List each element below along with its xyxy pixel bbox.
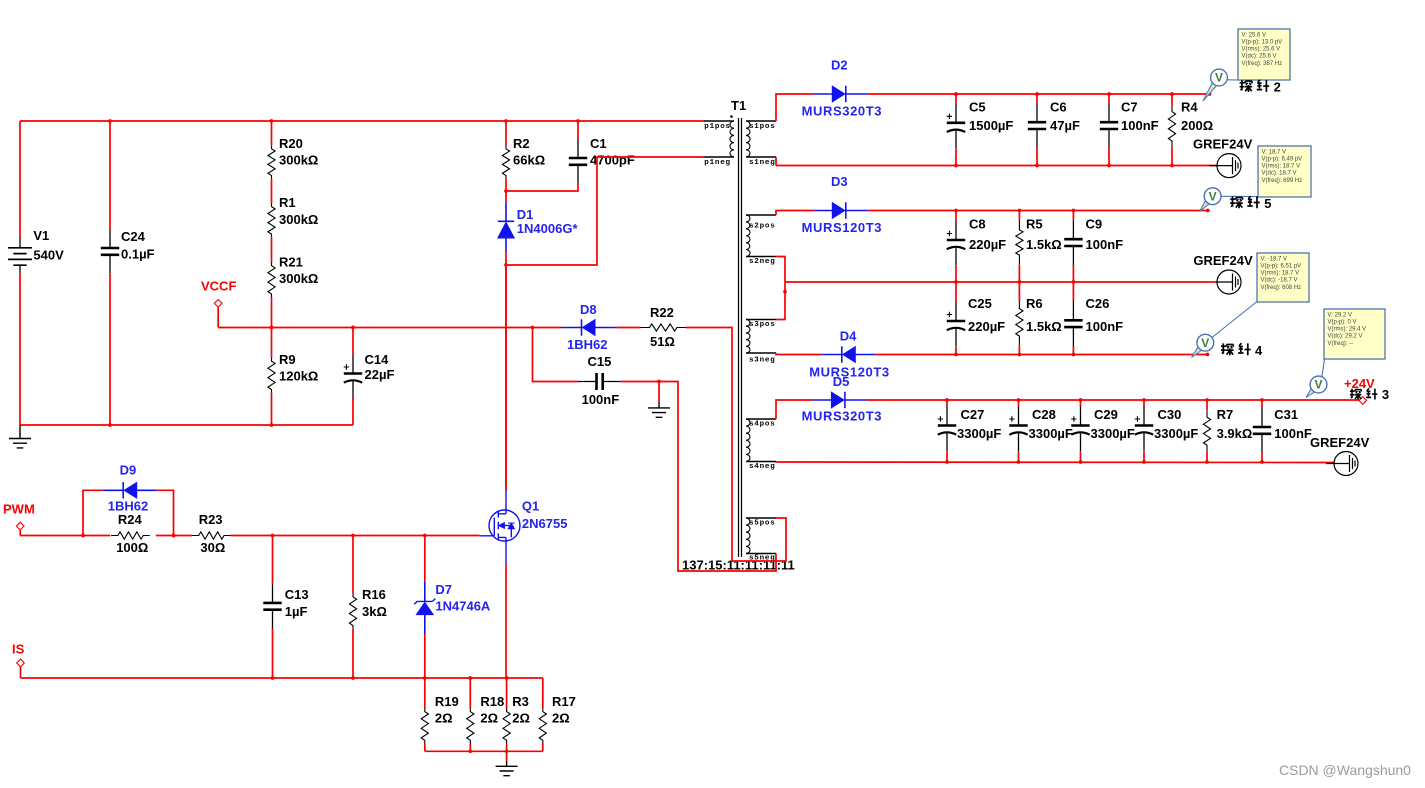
svg-text:V: V bbox=[1209, 189, 1217, 203]
svg-text:V(freq): 387 Hz: V(freq): 387 Hz bbox=[1242, 61, 1283, 67]
pin p1neg bbox=[703, 156, 734, 158]
node n divider top bbox=[270, 119, 274, 123]
resistor R22 bbox=[641, 324, 687, 331]
label C9 bbox=[1086, 217, 1124, 253]
svg-text:D5: D5 bbox=[833, 374, 850, 389]
svg-text:3kΩ: 3kΩ bbox=[362, 604, 387, 619]
probe leader probe4 bbox=[1212, 302, 1257, 338]
node row4 top 1144 bbox=[1142, 398, 1146, 402]
svg-text:V: 18.7 V: V: 18.7 V bbox=[1262, 149, 1286, 155]
label R5 bbox=[1026, 217, 1062, 253]
wire C5 bottom lead bbox=[955, 149, 957, 166]
svg-text:V(freq): 699 Hz: V(freq): 699 Hz bbox=[1262, 178, 1303, 184]
label C14 bbox=[365, 352, 395, 382]
wire C5 top lead bbox=[955, 94, 957, 104]
label R4 bbox=[1181, 100, 1213, 134]
wire C31 top lead bbox=[1261, 400, 1263, 408]
wire s1pos riser bbox=[776, 94, 813, 121]
wire row3 bottom rail bbox=[875, 354, 1207, 356]
wire C27 top lead bbox=[946, 400, 948, 407]
resistor R16 bbox=[349, 593, 356, 629]
label D8 bbox=[580, 302, 597, 317]
net connector +24V bbox=[1359, 397, 1367, 405]
node row1 bot 1172 bbox=[1170, 164, 1174, 168]
probe leader probe2 bbox=[1227, 79, 1239, 81]
capacitor C25 bbox=[947, 302, 966, 347]
wire R7 bottom lead bbox=[1206, 452, 1208, 462]
svg-text:V1: V1 bbox=[33, 228, 49, 243]
wire R6 top lead bbox=[1018, 282, 1020, 302]
svg-text:+24V: +24V bbox=[1344, 376, 1375, 391]
wire C8 top lead bbox=[955, 211, 957, 222]
label T1 bbox=[731, 98, 746, 113]
net connector PWM bbox=[16, 522, 24, 530]
label C7 bbox=[1121, 100, 1159, 134]
svg-text:2Ω: 2Ω bbox=[512, 711, 530, 726]
svg-text:R3: R3 bbox=[512, 694, 529, 709]
svg-text:2Ω: 2Ω bbox=[435, 711, 453, 726]
svg-text:100nF: 100nF bbox=[1086, 319, 1124, 334]
label Q1 bbox=[522, 499, 568, 532]
wire R24-R23 link bbox=[156, 535, 192, 537]
pin p1pos bbox=[703, 120, 734, 122]
capacitor C7 bbox=[1100, 103, 1118, 148]
svg-text:R6: R6 bbox=[1026, 296, 1043, 311]
ground gnd C15 bbox=[648, 403, 670, 418]
svg-text:3.9kΩ: 3.9kΩ bbox=[1217, 426, 1253, 441]
svg-text:s2pos: s2pos bbox=[749, 223, 776, 231]
svg-text:R1: R1 bbox=[279, 195, 296, 210]
label R7 bbox=[1217, 407, 1253, 441]
probe probe 4 bbox=[1192, 346, 1203, 357]
svg-text:0.1µF: 0.1µF bbox=[121, 247, 155, 262]
node n VCCF b bbox=[351, 326, 355, 330]
node n C24 bottom bbox=[108, 423, 112, 427]
diode D5 bbox=[812, 392, 866, 408]
capacitor C13 bbox=[263, 584, 281, 629]
wire R18 top lead bbox=[469, 678, 471, 708]
wire C13 top lead bbox=[272, 536, 274, 585]
node row2 top 1019.4 bbox=[1018, 209, 1022, 213]
svg-text:s4neg: s4neg bbox=[749, 463, 776, 471]
wire C31 bottom lead bbox=[1261, 453, 1263, 462]
svg-text:V(dc): 18.7 V: V(dc): 18.7 V bbox=[1262, 171, 1297, 177]
node n C14 top bbox=[351, 326, 355, 330]
svg-text:R20: R20 bbox=[279, 136, 303, 151]
wire D7 bottom lead bbox=[424, 634, 426, 679]
svg-text:IS: IS bbox=[12, 642, 25, 657]
wire C24 column bottom bbox=[109, 274, 111, 425]
node n src a bbox=[468, 749, 472, 753]
svg-text:300kΩ: 300kΩ bbox=[279, 153, 318, 168]
svg-text:1.5kΩ: 1.5kΩ bbox=[1026, 237, 1062, 252]
node row1 probe node bbox=[1208, 92, 1212, 96]
svg-text:100Ω: 100Ω bbox=[116, 540, 148, 555]
wire R6 bottom lead bbox=[1018, 345, 1020, 354]
svg-text:R5: R5 bbox=[1026, 217, 1043, 232]
svg-text:220µF: 220µF bbox=[969, 237, 1006, 252]
wire mid rail bbox=[785, 281, 1216, 283]
svg-text:Q1: Q1 bbox=[522, 499, 539, 514]
svg-text:s1neg: s1neg bbox=[749, 159, 776, 167]
node row4 top 1262 bbox=[1260, 398, 1264, 402]
pin s1neg bbox=[746, 156, 776, 158]
diode D2 bbox=[813, 86, 867, 102]
wire R9 top lead bbox=[271, 328, 273, 359]
label R17 bbox=[552, 694, 576, 726]
node gate node 353 bbox=[351, 534, 355, 538]
capacitor C14 bbox=[344, 355, 363, 400]
node row1 top 1109 bbox=[1107, 92, 1111, 96]
resistor R20 bbox=[268, 146, 275, 179]
label D7 bbox=[435, 582, 491, 614]
label R20 bbox=[279, 136, 318, 168]
label D4 bbox=[840, 329, 857, 344]
label C28 bbox=[1029, 407, 1073, 441]
svg-text:V: V bbox=[1314, 378, 1322, 392]
node row1 top 956 bbox=[954, 92, 958, 96]
diode D4 bbox=[821, 346, 875, 362]
svg-text:3300µF: 3300µF bbox=[1029, 426, 1073, 441]
wire C14 bottom bbox=[352, 397, 354, 425]
node row4 bot 1207 bbox=[1205, 460, 1209, 464]
svg-text:51Ω: 51Ω bbox=[650, 334, 675, 349]
svg-text:V(dc): 25.6 V: V(dc): 25.6 V bbox=[1242, 54, 1277, 60]
svg-text:C25: C25 bbox=[968, 296, 992, 311]
node row3 bot 1019.4 bbox=[1018, 353, 1022, 357]
wire C24 column top bbox=[109, 121, 111, 229]
node row4 bot 1080.5 bbox=[1079, 460, 1083, 464]
ground gnd V1 bbox=[9, 425, 31, 448]
label R23 bbox=[199, 512, 226, 555]
node row2 top 956 bbox=[954, 209, 958, 213]
svg-text:C27: C27 bbox=[961, 407, 985, 422]
resistor R21 bbox=[268, 263, 275, 298]
svg-text:D2: D2 bbox=[831, 58, 848, 73]
label C26 bbox=[1086, 296, 1124, 334]
svg-text:66kΩ: 66kΩ bbox=[513, 153, 545, 168]
svg-text:R21: R21 bbox=[279, 255, 303, 270]
svg-text:C9: C9 bbox=[1086, 217, 1103, 232]
svg-text:3300µF: 3300µF bbox=[1154, 426, 1198, 441]
label D9 bbox=[120, 463, 137, 478]
label C6 bbox=[1050, 100, 1080, 134]
svg-text:V(dc): 29.2 V: V(dc): 29.2 V bbox=[1328, 334, 1363, 340]
svg-text:22µF: 22µF bbox=[365, 367, 395, 382]
label C29 bbox=[1091, 407, 1135, 441]
probe probe 2 bbox=[1203, 82, 1217, 101]
probe label probe 5 bbox=[1230, 196, 1271, 211]
node row4 top 1080.5 bbox=[1079, 398, 1083, 402]
wire C1 bottom lead bbox=[506, 184, 578, 191]
label R16 bbox=[362, 587, 387, 619]
svg-text:100nF: 100nF bbox=[1274, 426, 1312, 441]
capacitor C24 bbox=[101, 229, 119, 273]
probe probe 5 bbox=[1200, 200, 1210, 211]
label D5 bbox=[833, 374, 850, 389]
label C15 bbox=[582, 354, 620, 407]
svg-text:1BH62: 1BH62 bbox=[567, 337, 607, 352]
node row4 top 1018.5 bbox=[1017, 398, 1021, 402]
wire row4 top rail bbox=[866, 399, 1359, 401]
capacitor C31 bbox=[1253, 408, 1271, 453]
label C13 bbox=[285, 587, 309, 619]
wire row1 bottom rail bbox=[776, 165, 1217, 167]
svg-text:D3: D3 bbox=[831, 174, 848, 189]
wire C8 bottom lead bbox=[955, 266, 957, 282]
svg-text:300kΩ: 300kΩ bbox=[279, 212, 318, 227]
svg-text:GREF24V: GREF24V bbox=[1193, 253, 1253, 268]
svg-text:2Ω: 2Ω bbox=[480, 711, 498, 726]
wire row2 top rail bbox=[867, 210, 1208, 212]
wire C30 top lead bbox=[1143, 400, 1145, 407]
wire D7 top lead bbox=[424, 536, 426, 582]
label C5 bbox=[969, 100, 1013, 134]
label D4 model bbox=[809, 365, 890, 380]
node row4 bot 1018.5 bbox=[1017, 460, 1021, 464]
wire C25 bottom lead bbox=[955, 347, 957, 355]
wire D9 branch right bbox=[157, 490, 174, 535]
node row4 bot 947 bbox=[945, 460, 949, 464]
svg-text:V: V bbox=[1215, 71, 1223, 85]
resistor R17 bbox=[539, 708, 546, 744]
svg-text:V(freq): 608 Hz: V(freq): 608 Hz bbox=[1261, 285, 1302, 291]
transformer T1 phase dot bbox=[730, 115, 733, 118]
transformer winding s4 bbox=[746, 419, 750, 462]
transformer winding s1 bbox=[746, 121, 750, 157]
label GREF24V row1 bbox=[1193, 137, 1253, 152]
svg-text:V(p-p): 6.49 pV: V(p-p): 6.49 pV bbox=[1262, 157, 1303, 163]
svg-text:PWM: PWM bbox=[3, 502, 35, 517]
node row4 bot 1262 bbox=[1260, 460, 1264, 464]
wire C9 top lead bbox=[1072, 211, 1074, 221]
resistor R23 bbox=[192, 532, 231, 539]
diode D1 bbox=[498, 203, 514, 253]
transformer winding s5 bbox=[746, 518, 750, 554]
svg-text:V(rms): 18.7 V: V(rms): 18.7 V bbox=[1262, 164, 1301, 170]
svg-text:V(p-p): 13.0 pV: V(p-p): 13.0 pV bbox=[1242, 40, 1283, 46]
svg-text:R22: R22 bbox=[650, 305, 674, 320]
label R21 bbox=[279, 255, 318, 287]
battery V1 bbox=[8, 238, 32, 274]
wire C15 right lead bbox=[621, 381, 659, 383]
wire IS rail bbox=[21, 677, 543, 679]
wire C28 top lead bbox=[1018, 400, 1020, 407]
wire VCCF rail bbox=[218, 327, 561, 329]
svg-text:C29: C29 bbox=[1094, 407, 1118, 422]
node row2 mid 1073.4 bbox=[1072, 280, 1076, 284]
wire IS stub bbox=[20, 667, 22, 678]
svg-text:R7: R7 bbox=[1217, 407, 1234, 422]
wire C14 top lead bbox=[352, 328, 354, 355]
label C1 bbox=[590, 136, 635, 168]
node n R9 bottom bbox=[270, 423, 274, 427]
label R3 bbox=[512, 694, 530, 726]
svg-text:300kΩ: 300kΩ bbox=[279, 271, 318, 286]
label C8 bbox=[969, 217, 1006, 253]
node n D9 left bbox=[81, 534, 85, 538]
wire C9 bottom lead bbox=[1072, 265, 1074, 282]
svg-text:s3neg: s3neg bbox=[749, 357, 776, 365]
label C27 bbox=[957, 407, 1001, 441]
wire V1 left column top bbox=[19, 121, 21, 238]
wire gate run bbox=[231, 535, 480, 537]
svg-text:200Ω: 200Ω bbox=[1181, 118, 1213, 133]
pin s2pos bbox=[746, 214, 776, 216]
wire R9 bottom bbox=[271, 393, 273, 426]
svg-text:120kΩ: 120kΩ bbox=[279, 369, 318, 384]
capacitor C8 bbox=[947, 221, 966, 266]
wire R5 bottom lead bbox=[1018, 264, 1020, 282]
svg-text:C1: C1 bbox=[590, 136, 607, 151]
node n C24 top bbox=[108, 119, 112, 123]
net connector IS bbox=[17, 659, 25, 667]
zener diode D7 bbox=[414, 581, 435, 633]
svg-text:220µF: 220µF bbox=[968, 319, 1005, 334]
label R1 bbox=[279, 195, 318, 227]
wire D1 top red bbox=[505, 191, 507, 203]
wire C28 bottom lead bbox=[1018, 452, 1020, 463]
wire s4neg run bbox=[776, 462, 1334, 463]
wire R3 bottom lead bbox=[506, 744, 508, 751]
wire R22-s5 link bbox=[686, 328, 786, 562]
capacitor C15 bbox=[579, 373, 621, 390]
pin s5pos bbox=[746, 517, 776, 519]
net connector VCCF bbox=[214, 300, 222, 308]
wire R5 top lead bbox=[1018, 211, 1020, 221]
probe leader probe5 bbox=[1221, 195, 1258, 197]
node n R2 top bbox=[504, 119, 508, 123]
node n C1 top bbox=[576, 119, 580, 123]
transformer winding p1 bbox=[730, 121, 734, 157]
node IS node 424.8 bbox=[423, 676, 427, 680]
node row1 bot 956 bbox=[954, 164, 958, 168]
wire source red bbox=[505, 563, 507, 678]
node row2 probe node bbox=[1206, 209, 1210, 213]
wire D9 branch left bbox=[83, 490, 103, 535]
capacitor C26 bbox=[1064, 301, 1082, 346]
svg-text:D9: D9 bbox=[120, 463, 137, 478]
svg-text:R17: R17 bbox=[552, 694, 576, 709]
ground reference GREF24V row4 bbox=[1326, 452, 1358, 476]
svg-text:100nF: 100nF bbox=[582, 392, 620, 407]
node n src b bbox=[505, 749, 509, 753]
node n C15 gnd bbox=[657, 380, 661, 384]
label D3 model bbox=[802, 220, 883, 235]
wire R17 top lead bbox=[542, 678, 544, 708]
wire D1 bottom red bbox=[505, 252, 507, 265]
label C30 bbox=[1154, 407, 1198, 441]
resistor R2 bbox=[502, 146, 509, 179]
svg-text:V(p-p): 0 V: V(p-p): 0 V bbox=[1328, 320, 1357, 326]
svg-text:R16: R16 bbox=[362, 587, 386, 602]
node row2 mid 1019.4 bbox=[1018, 280, 1022, 284]
wire C7 bottom lead bbox=[1108, 148, 1110, 166]
wire PWM run bbox=[20, 535, 110, 537]
wire C29 bottom lead bbox=[1080, 452, 1082, 463]
resistor R19 bbox=[421, 708, 428, 744]
resistor R24 bbox=[111, 532, 150, 539]
label D3 bbox=[831, 174, 848, 189]
svg-text:540V: 540V bbox=[33, 248, 64, 263]
svg-text:V(rms): 18.7 V: V(rms): 18.7 V bbox=[1261, 271, 1300, 277]
svg-text:s1pos: s1pos bbox=[749, 123, 776, 131]
svg-text:V(freq): --: V(freq): -- bbox=[1328, 341, 1354, 347]
svg-text:C28: C28 bbox=[1032, 407, 1056, 422]
probe leader probe3 bbox=[1322, 359, 1325, 377]
probe probe 3 bbox=[1306, 388, 1315, 397]
probe readout box probe3 bbox=[1324, 309, 1385, 359]
wire C1 top lead bbox=[577, 121, 579, 139]
wire C29 top lead bbox=[1080, 400, 1082, 407]
wire s3neg run bbox=[776, 353, 821, 355]
svg-text:C15: C15 bbox=[588, 354, 612, 369]
capacitor C27 bbox=[938, 407, 957, 452]
wire C27 bottom lead bbox=[946, 452, 948, 463]
svg-text:C30: C30 bbox=[1158, 407, 1182, 422]
pin s4pos bbox=[746, 418, 776, 420]
wire bottom rail bbox=[20, 424, 353, 426]
svg-text:V: -18.7 V: V: -18.7 V bbox=[1261, 256, 1287, 262]
wire C26 top lead bbox=[1072, 282, 1074, 302]
node row1 bot 1109 bbox=[1107, 164, 1111, 168]
svg-text:D8: D8 bbox=[580, 302, 597, 317]
resistor R5 bbox=[1016, 221, 1023, 265]
wire R20-R1 link bbox=[271, 179, 273, 204]
pin s5neg bbox=[746, 553, 776, 555]
wire drain column bbox=[505, 265, 507, 490]
wire gnd stub src bbox=[506, 751, 508, 761]
svg-text:100nF: 100nF bbox=[1086, 237, 1124, 252]
svg-text:2: 2 bbox=[1274, 80, 1281, 95]
node IS node 506.6 bbox=[505, 676, 509, 680]
resistor R3 bbox=[503, 708, 510, 744]
resistor R1 bbox=[268, 204, 275, 238]
wire PWM stub bbox=[19, 530, 21, 536]
label R9 bbox=[279, 352, 318, 384]
wire R7 top lead bbox=[1206, 400, 1208, 410]
wire C25 top lead bbox=[955, 282, 957, 302]
node row2 mid 956 bbox=[954, 280, 958, 284]
svg-text:2N6755: 2N6755 bbox=[522, 516, 568, 531]
svg-text:C31: C31 bbox=[1274, 407, 1298, 422]
svg-text:V(rms): 25.6 V: V(rms): 25.6 V bbox=[1242, 47, 1281, 53]
probe readout box probe5 bbox=[1258, 146, 1311, 197]
svg-text:C26: C26 bbox=[1086, 296, 1110, 311]
wire R2 bottom lead bbox=[505, 179, 507, 192]
node row1 top 1172 bbox=[1170, 92, 1174, 96]
svg-text:s5pos: s5pos bbox=[749, 520, 776, 528]
node IS node 272.5 bbox=[271, 676, 275, 680]
wire drain red lower bbox=[505, 265, 507, 490]
svg-text:1.5kΩ: 1.5kΩ bbox=[1026, 319, 1062, 334]
wire R1-R21 link bbox=[271, 237, 273, 262]
transformer winding s2 bbox=[746, 215, 750, 257]
capacitor C9 bbox=[1064, 220, 1082, 265]
resistor R7 bbox=[1203, 410, 1210, 452]
wire V1 left column bottom bbox=[19, 274, 21, 425]
probe readout box probe2 bbox=[1238, 29, 1290, 80]
wire R3 top lead bbox=[506, 678, 508, 708]
svg-text:V(rms): 29.4 V: V(rms): 29.4 V bbox=[1328, 327, 1367, 333]
pin s2neg bbox=[746, 256, 776, 258]
wire source bottom rail bbox=[425, 750, 543, 752]
wire s2pos riser bbox=[776, 211, 813, 216]
wire VCCF stub bbox=[217, 307, 219, 327]
wire R19 top lead bbox=[424, 678, 426, 708]
probe readout box probe4 bbox=[1257, 253, 1309, 302]
svg-text:D1: D1 bbox=[517, 207, 534, 222]
